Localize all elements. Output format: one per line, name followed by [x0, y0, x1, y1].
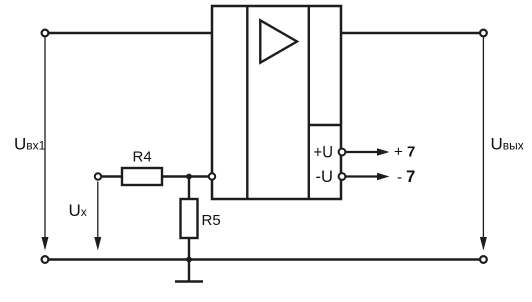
svg-text:+ 7: + 7 — [394, 144, 415, 161]
op-amp U1 amplifier triangle — [260, 20, 297, 62]
op-amp U1 left internal divider — [246, 5, 248, 199]
ground stub wire — [188, 260, 190, 282]
wire +U supply arrow — [346, 151, 378, 153]
Uvx1 arrowhead — [42, 237, 49, 251]
resistor R4 — [122, 168, 162, 185]
ground — [175, 280, 203, 283]
resistor R5 — [181, 199, 198, 238]
op-amp input pin terminal — [209, 173, 215, 179]
wire top-left input — [49, 32, 212, 34]
Ux measurement arrow — [97, 182, 99, 239]
node junction R4/R5 — [186, 174, 192, 180]
svg-text:-U: -U — [316, 167, 334, 186]
Uvyh measurement line — [482, 37, 484, 238]
node junction bottom rail — [186, 257, 192, 263]
Ux arrowhead — [94, 237, 101, 251]
Uvx1 measurement line — [44, 37, 46, 238]
arrowhead +U supply — [377, 148, 390, 155]
op-amp U1 right internal divider — [308, 5, 310, 199]
svg-text:+U: +U — [314, 143, 334, 162]
op-amp U1 outer box — [212, 6, 341, 199]
wire R5 to bottom rail — [188, 238, 190, 260]
Uvyh arrowhead — [480, 237, 487, 251]
wire bottom rail — [49, 258, 480, 261]
svg-text:R4: R4 — [133, 149, 152, 166]
terminal top-left — [42, 30, 49, 37]
terminal bottom-right — [480, 256, 487, 263]
pin terminal -U — [339, 173, 346, 180]
wire top-right output — [342, 32, 480, 34]
wire terminal to R4 — [102, 175, 123, 177]
pin terminal +U — [339, 149, 346, 156]
terminal Ux input — [95, 173, 101, 179]
svg-text:- 7: - 7 — [397, 168, 415, 186]
op-amp U1 supply-section divider — [309, 124, 341, 126]
arrowhead -U supply — [377, 173, 390, 180]
wire -U supply arrow — [346, 175, 378, 177]
svg-text:R5: R5 — [202, 212, 221, 229]
wire node to R5 — [188, 177, 190, 200]
terminal top-right — [480, 30, 487, 37]
terminal bottom-left — [42, 256, 49, 263]
wire R4 to node — [162, 175, 209, 177]
